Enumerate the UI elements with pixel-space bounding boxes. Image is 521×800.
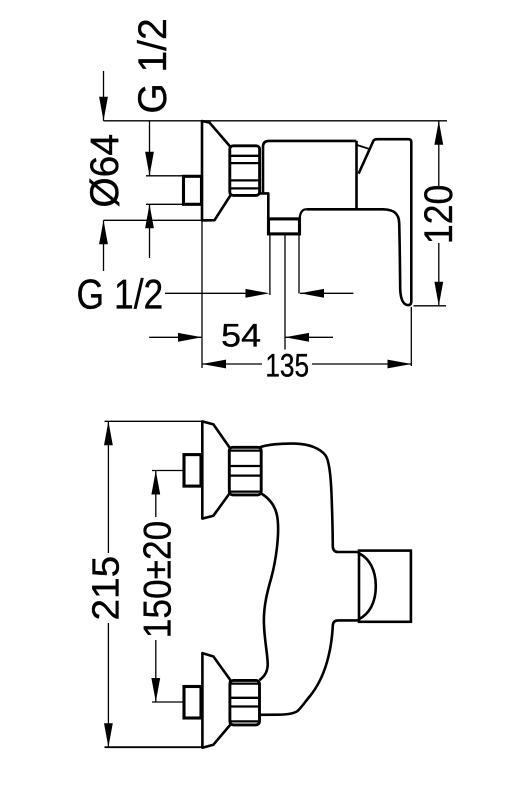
svg-text:135: 135 bbox=[265, 349, 309, 384]
svg-text:G 1/2: G 1/2 bbox=[131, 18, 176, 113]
svg-text:G 1/2: G 1/2 bbox=[77, 272, 164, 318]
svg-text:215: 215 bbox=[85, 556, 128, 621]
svg-text:Ø64: Ø64 bbox=[83, 134, 128, 208]
svg-text:120: 120 bbox=[417, 185, 461, 244]
svg-text:150±20: 150±20 bbox=[136, 521, 179, 638]
svg-text:54: 54 bbox=[221, 318, 261, 354]
